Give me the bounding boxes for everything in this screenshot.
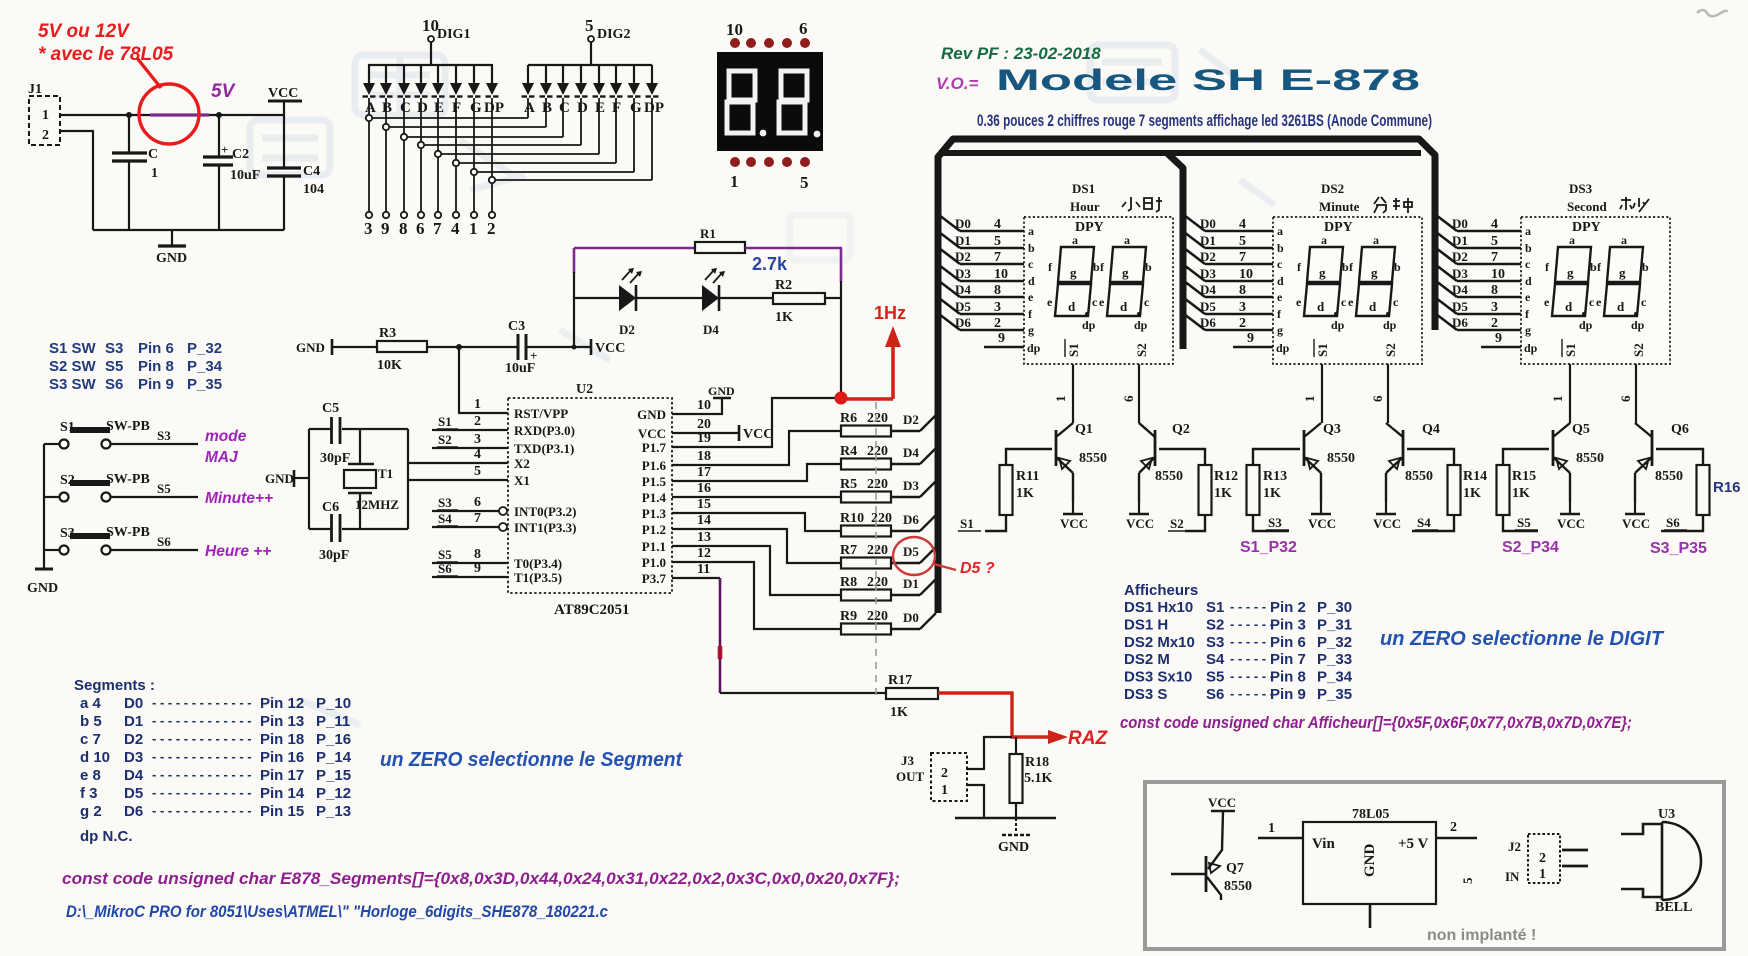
svg-text:C2: C2 [232, 147, 249, 162]
svg-text:2: 2 [1539, 851, 1546, 866]
svg-text:g: g [1070, 265, 1077, 280]
svg-text:d: d [1028, 274, 1035, 288]
svg-text:Pin 12: Pin 12 [260, 695, 304, 712]
svg-text:S1_P32: S1_P32 [1240, 539, 1297, 556]
label DS3 chinese [1620, 197, 1649, 212]
svg-text:D5: D5 [1200, 299, 1216, 314]
svg-text:30pF: 30pF [319, 548, 349, 563]
svg-text:VCC: VCC [1373, 516, 1401, 531]
resistor R9 220 [841, 624, 891, 635]
svg-text:DS2: DS2 [1321, 181, 1344, 196]
wire P1.6 [672, 431, 841, 465]
LED DIG2 segment F [615, 65, 617, 83]
transistor Q3 [1304, 423, 1321, 437]
svg-text:DS1 H: DS1 H [1124, 616, 1168, 633]
svg-text:R13: R13 [1263, 469, 1287, 484]
capacitor C5 30pF [330, 417, 333, 444]
svg-text:D1: D1 [955, 233, 971, 248]
LED DIG2 segment G [633, 65, 635, 83]
wire net D5 [891, 562, 920, 564]
svg-text:1K: 1K [890, 705, 908, 720]
svg-text:- - - - -: - - - - - [1230, 634, 1266, 649]
svg-text:0.36 pouces 2 chiffres rouge 7: 0.36 pouces 2 chiffres rouge 7 segments … [977, 112, 1432, 130]
svg-text:220: 220 [871, 511, 892, 526]
resistor R8 220 [841, 590, 891, 601]
pin 8 T0(P3.4) [432, 562, 508, 564]
svg-text:D2: D2 [1200, 249, 1216, 264]
svg-text:16: 16 [697, 481, 711, 496]
svg-text:1: 1 [1268, 821, 1275, 836]
svg-text:D6: D6 [1200, 315, 1216, 330]
svg-text:Pin 6: Pin 6 [138, 340, 174, 357]
svg-text:2: 2 [1491, 316, 1498, 331]
svg-text:S5: S5 [1517, 515, 1531, 530]
svg-text:1: 1 [469, 219, 478, 238]
wire [60, 114, 284, 116]
svg-text:14: 14 [697, 513, 711, 528]
svg-text:D2: D2 [124, 731, 143, 748]
wire DS3 D1 [1436, 232, 1457, 248]
svg-text:D4: D4 [903, 445, 919, 460]
svg-text:DS3 Sx10: DS3 Sx10 [1124, 669, 1192, 686]
svg-text:a 4: a 4 [80, 695, 102, 712]
display module photo [717, 52, 823, 151]
svg-text:P_32: P_32 [187, 340, 222, 357]
svg-text:VCC: VCC [743, 427, 773, 442]
svg-text:9: 9 [1495, 331, 1502, 346]
svg-text:D: D [577, 100, 588, 116]
svg-text:13: 13 [697, 530, 711, 545]
svg-text:S1: S1 [1066, 343, 1081, 357]
svg-text:- - - - - - - - - - - - -: - - - - - - - - - - - - - [152, 695, 252, 710]
ground [171, 230, 173, 245]
wire net D4 [891, 463, 920, 465]
svg-text:9: 9 [1247, 331, 1254, 346]
svg-text:c: c [1092, 295, 1098, 309]
svg-text:1: 1 [730, 172, 739, 191]
svg-text:e: e [1099, 295, 1105, 309]
IC U2 AT89C2051 [508, 398, 672, 593]
svg-text:3: 3 [474, 432, 481, 447]
svg-text:b: b [1394, 260, 1401, 274]
svg-text:- - - - - -: - - - - - - [1230, 669, 1274, 684]
LED DIG2 segment A [527, 65, 529, 83]
LED DIG1 segment DP [491, 65, 493, 83]
svg-text:7: 7 [994, 250, 1001, 265]
svg-text:d: d [1120, 299, 1128, 314]
resistor R10 220 [841, 526, 891, 537]
wire DS3 D3 [1436, 265, 1457, 281]
svg-text:2: 2 [487, 219, 496, 238]
svg-text:G: G [470, 100, 482, 116]
svg-text:D3: D3 [124, 749, 143, 766]
LED DIG1 segment C [403, 65, 405, 83]
svg-text:MAJ: MAJ [205, 449, 238, 466]
svg-text:5: 5 [994, 234, 1001, 249]
svg-text:D6: D6 [903, 512, 919, 527]
svg-text:4: 4 [451, 219, 460, 238]
svg-text:dp: dp [1331, 318, 1345, 332]
svg-text:B: B [382, 100, 392, 116]
svg-text:S3: S3 [105, 340, 123, 357]
wire [407, 136, 563, 138]
svg-text:D:\_MikroC PRO for 8051\Uses\A: D:\_MikroC PRO for 8051\Uses\ATMEL\" "Ho… [66, 902, 608, 921]
svg-text:- - - - - - - - - - - - -: - - - - - - - - - - - - - [152, 749, 252, 764]
svg-text:4: 4 [994, 217, 1001, 232]
wire DS3 D5 [1436, 298, 1457, 314]
svg-text:10K: 10K [377, 358, 402, 373]
svg-text:- - - - - -: - - - - - - [1230, 616, 1274, 631]
LED DIG1 segment A [368, 65, 370, 83]
svg-text:D4: D4 [124, 767, 144, 784]
wire P1.5 [672, 464, 841, 481]
svg-text:g: g [1028, 323, 1034, 337]
svg-text:DP: DP [644, 100, 664, 116]
svg-text:P_34: P_34 [187, 358, 223, 375]
wire DS2 D2 [1184, 248, 1205, 264]
svg-text:R10: R10 [840, 511, 864, 526]
svg-text:U2: U2 [576, 382, 593, 397]
svg-text:b: b [1525, 241, 1532, 255]
svg-text:5: 5 [1239, 234, 1246, 249]
svg-text:AT89C2051: AT89C2051 [554, 602, 630, 618]
svg-text:GND: GND [708, 384, 735, 398]
svg-text:A: A [365, 100, 376, 116]
LED DIG1 segment D [420, 65, 422, 83]
svg-text:a: a [1028, 224, 1034, 238]
svg-text:7: 7 [433, 219, 442, 238]
LED DIG1 segment F [455, 65, 457, 83]
svg-text:3: 3 [1239, 300, 1246, 315]
svg-text:D1: D1 [1200, 233, 1216, 248]
svg-text:a: a [1072, 233, 1078, 247]
wire DS2 D1 [1184, 232, 1205, 248]
svg-text:Q7: Q7 [1226, 861, 1244, 876]
svg-text:S5: S5 [105, 358, 123, 375]
node DIG1 G [471, 169, 477, 175]
node DIG1 B [383, 124, 389, 130]
svg-text:R8: R8 [840, 575, 857, 590]
svg-text:2: 2 [1450, 820, 1457, 835]
ground [1015, 818, 1017, 833]
svg-text:3: 3 [994, 300, 1001, 315]
svg-text:D5 ?: D5 ? [960, 560, 995, 577]
svg-text:10: 10 [1491, 267, 1505, 282]
svg-text:8550: 8550 [1405, 469, 1433, 484]
svg-text:GND: GND [1362, 844, 1378, 878]
svg-text:VCC: VCC [638, 426, 666, 441]
svg-text:g: g [1525, 323, 1531, 337]
svg-text:C3: C3 [508, 319, 525, 334]
box non implante [1145, 782, 1724, 949]
svg-text:8550: 8550 [1079, 451, 1107, 466]
svg-text:DPY: DPY [1572, 220, 1601, 235]
svg-text:5: 5 [800, 173, 809, 192]
svg-text:R2: R2 [775, 278, 792, 293]
svg-text:* avec le 78L05: * avec le 78L05 [38, 44, 174, 65]
svg-text:+5 V: +5 V [1398, 836, 1429, 852]
wire [1562, 849, 1588, 852]
svg-text:D4: D4 [1200, 282, 1216, 297]
wire gnd stub [1369, 904, 1372, 928]
svg-text:1: 1 [151, 166, 158, 181]
svg-text:P_34: P_34 [1317, 669, 1353, 686]
wire [955, 817, 1056, 820]
svg-text:- - - - -: - - - - - [1230, 651, 1266, 666]
svg-text:Pin 13: Pin 13 [260, 713, 304, 730]
svg-text:S3: S3 [157, 428, 171, 443]
svg-text:D0: D0 [124, 695, 143, 712]
pin [401, 212, 407, 218]
svg-text:1: 1 [474, 397, 481, 412]
svg-text:S4: S4 [438, 511, 452, 526]
svg-text:6: 6 [1121, 395, 1136, 402]
svg-text:Heure ++: Heure ++ [205, 543, 271, 560]
svg-text:P1.0: P1.0 [642, 555, 666, 570]
svg-text:S3: S3 [1268, 515, 1282, 530]
resistor R1 2.7k [695, 242, 745, 253]
bus branch DS2 [1167, 153, 1183, 349]
svg-text:S2 SW: S2 SW [49, 358, 97, 375]
svg-text:1Hz: 1Hz [874, 303, 906, 323]
svg-text:220: 220 [867, 477, 888, 492]
pin 9 T1(P3.5) [432, 576, 508, 578]
svg-text:8: 8 [994, 283, 1001, 298]
wire DS1 D1 [939, 232, 960, 248]
svg-text:P_31: P_31 [1317, 616, 1352, 633]
svg-text:P1.6: P1.6 [642, 458, 667, 473]
svg-text:f 3: f 3 [80, 785, 98, 802]
pin 6 INT0(P3.2) [432, 510, 499, 512]
svg-text:D5: D5 [1452, 299, 1468, 314]
wire [368, 64, 493, 66]
transistor Q4 [1386, 423, 1403, 437]
svg-text:220: 220 [867, 575, 888, 590]
transistor Q7 [1208, 811, 1223, 869]
svg-text:VCC: VCC [1060, 516, 1088, 531]
LED DIG2 segment DP [651, 65, 653, 83]
bus inner [941, 150, 1421, 156]
svg-text:b: b [1028, 241, 1035, 255]
svg-text:S2_P34: S2_P34 [1502, 539, 1559, 556]
svg-text:d: d [1068, 299, 1076, 314]
svg-text:8550: 8550 [1327, 451, 1355, 466]
svg-text:d: d [1525, 274, 1532, 288]
wire net D3 [891, 496, 920, 498]
svg-text:c: c [1028, 257, 1034, 271]
svg-text:c: c [1277, 257, 1283, 271]
svg-text:8: 8 [474, 547, 481, 562]
pin [489, 212, 495, 218]
svg-text:P1.7: P1.7 [642, 440, 667, 455]
node DIG1 D [418, 142, 424, 148]
node DIG1 A [366, 115, 372, 121]
wire [573, 248, 576, 273]
resistor R7 220 [841, 558, 891, 569]
svg-text:b: b [1590, 260, 1597, 274]
svg-text:5: 5 [1460, 877, 1475, 884]
node [572, 345, 577, 350]
svg-text:R9: R9 [840, 609, 857, 624]
svg-text:dp N.C.: dp N.C. [80, 828, 133, 845]
wire DS2 D6 [1184, 314, 1205, 330]
svg-text:Pin 17: Pin 17 [260, 767, 304, 784]
svg-text:c: c [1641, 295, 1647, 309]
svg-text:20: 20 [697, 417, 711, 432]
pin 7 INT1(P3.3) [432, 526, 499, 528]
svg-text:17: 17 [697, 465, 711, 480]
transistor Q5 [1553, 423, 1570, 437]
svg-text:2: 2 [474, 414, 481, 429]
wire P1.0 [672, 562, 841, 629]
resistor R3 10K [377, 341, 427, 352]
wire DS1 D4 [939, 281, 960, 297]
svg-text:S4: S4 [1206, 651, 1225, 668]
svg-text:Pin 9: Pin 9 [1270, 686, 1306, 703]
transistor Q6 [1635, 423, 1652, 437]
svg-text:5V ou 12V: 5V ou 12V [38, 21, 130, 42]
display DS2 box [1273, 217, 1422, 364]
svg-text:DS1: DS1 [1072, 181, 1095, 196]
svg-text:2: 2 [994, 316, 1001, 331]
svg-text:B: B [542, 100, 552, 116]
wire pin2 [1436, 837, 1477, 840]
svg-text:g: g [1277, 323, 1283, 337]
wire [477, 171, 634, 173]
svg-text:T1: T1 [378, 466, 393, 481]
svg-text:4: 4 [1239, 217, 1246, 232]
svg-text:10uF: 10uF [230, 168, 260, 183]
digit glyph DS1.2 [1110, 247, 1146, 282]
svg-text:S3: S3 [438, 495, 452, 510]
svg-text:non implanté !: non implanté ! [1427, 927, 1536, 944]
svg-text:g 2: g 2 [80, 803, 102, 820]
svg-text:6: 6 [1370, 395, 1385, 402]
svg-text:d: d [1617, 299, 1625, 314]
svg-text:3: 3 [364, 219, 373, 238]
wire [308, 429, 310, 529]
svg-text:Pin 7: Pin 7 [1270, 651, 1306, 668]
svg-text:220: 220 [867, 543, 888, 558]
svg-text:A: A [524, 100, 535, 116]
svg-text:10: 10 [726, 20, 743, 39]
svg-text:VCC: VCC [1126, 516, 1154, 531]
wire [720, 692, 886, 694]
svg-text:1K: 1K [1016, 486, 1034, 501]
wire [495, 179, 652, 181]
svg-text:d 10: d 10 [80, 749, 110, 766]
connector J3 [931, 753, 967, 801]
wire DS2 D4 [1184, 281, 1205, 297]
LED D4 [702, 285, 719, 311]
wire DS2 D3 [1184, 265, 1205, 281]
wire DS3 D2 [1436, 248, 1457, 264]
wire net D2 [891, 430, 920, 432]
svg-text:e 8: e 8 [80, 767, 101, 784]
svg-text:T1(P3.5): T1(P3.5) [514, 570, 562, 585]
svg-text:4: 4 [474, 447, 481, 462]
svg-text:5.1K: 5.1K [1024, 771, 1053, 786]
svg-text:GND: GND [265, 471, 294, 486]
wire net D0 [891, 628, 920, 630]
svg-text:S6: S6 [1206, 686, 1224, 703]
scan fold line [875, 402, 877, 700]
wire [966, 785, 984, 818]
svg-text:P_14: P_14 [316, 749, 352, 766]
svg-text:DIG2: DIG2 [597, 27, 630, 42]
svg-text:R15: R15 [1512, 469, 1536, 484]
svg-text:dp: dp [1524, 341, 1538, 355]
svg-text:5: 5 [1491, 234, 1498, 249]
svg-text:S6: S6 [438, 561, 452, 576]
svg-text:Modele SH E-878: Modele SH E-878 [996, 64, 1420, 97]
svg-text:dp: dp [1383, 318, 1397, 332]
svg-text:c: c [1525, 257, 1531, 271]
svg-text:b: b [1342, 260, 1349, 274]
svg-text:D6: D6 [1452, 315, 1468, 330]
svg-text:P_32: P_32 [1317, 634, 1352, 651]
wire P1.1 [672, 546, 841, 595]
svg-text:D5: D5 [124, 785, 143, 802]
wire [93, 229, 284, 231]
svg-text:GND: GND [637, 407, 666, 422]
svg-text:11: 11 [697, 562, 710, 577]
resistor R17 1K [886, 688, 938, 699]
svg-text:VCC: VCC [1208, 795, 1236, 810]
wire [111, 496, 198, 498]
wire DS3 D6 [1436, 314, 1457, 330]
wire [1562, 865, 1588, 868]
svg-text:- - - - - - - - - - - - -: - - - - - - - - - - - - - [152, 731, 252, 746]
svg-text:DS2 M: DS2 M [1124, 651, 1170, 668]
LED DIG1 segment E [437, 65, 439, 83]
pin 2 RXD(P3.0) [432, 429, 508, 431]
svg-text:S1: S1 [960, 516, 974, 531]
svg-text:S1: S1 [1563, 343, 1578, 357]
svg-text:b: b [1277, 241, 1284, 255]
svg-text:c 7: c 7 [80, 731, 101, 748]
node [216, 112, 222, 118]
svg-text:b: b [1145, 260, 1152, 274]
svg-text:7: 7 [1239, 250, 1246, 265]
svg-text:P3.7: P3.7 [642, 571, 667, 586]
svg-text:dp: dp [1579, 318, 1593, 332]
wire DS3 dp [1481, 346, 1521, 349]
wire [574, 297, 619, 299]
svg-text:c: c [1144, 295, 1150, 309]
svg-text:c: c [1393, 295, 1399, 309]
wire [840, 281, 842, 398]
svg-text:- - - - - - - - - - - - -: - - - - - - - - - - - - - [152, 803, 252, 818]
svg-text:Second: Second [1567, 199, 1608, 214]
svg-text:D5: D5 [903, 544, 919, 559]
wire DS1 D6 [939, 314, 960, 330]
svg-text:D2: D2 [619, 322, 635, 337]
svg-text:S5: S5 [157, 481, 171, 496]
svg-text:DP: DP [484, 100, 504, 116]
svg-text:d: d [1369, 299, 1377, 314]
svg-text:e: e [1544, 295, 1550, 309]
svg-text:R5: R5 [840, 477, 857, 492]
svg-text:R16: R16 [1713, 479, 1741, 496]
svg-text:P1.4: P1.4 [642, 490, 667, 505]
svg-text:VCC: VCC [268, 86, 298, 101]
svg-text:TXD(P3.1): TXD(P3.1) [514, 441, 574, 456]
wire DS1 D5 [939, 298, 960, 314]
svg-text:g: g [1319, 265, 1326, 280]
wire DS1 dp [984, 346, 1024, 349]
svg-text:D2: D2 [903, 412, 919, 427]
